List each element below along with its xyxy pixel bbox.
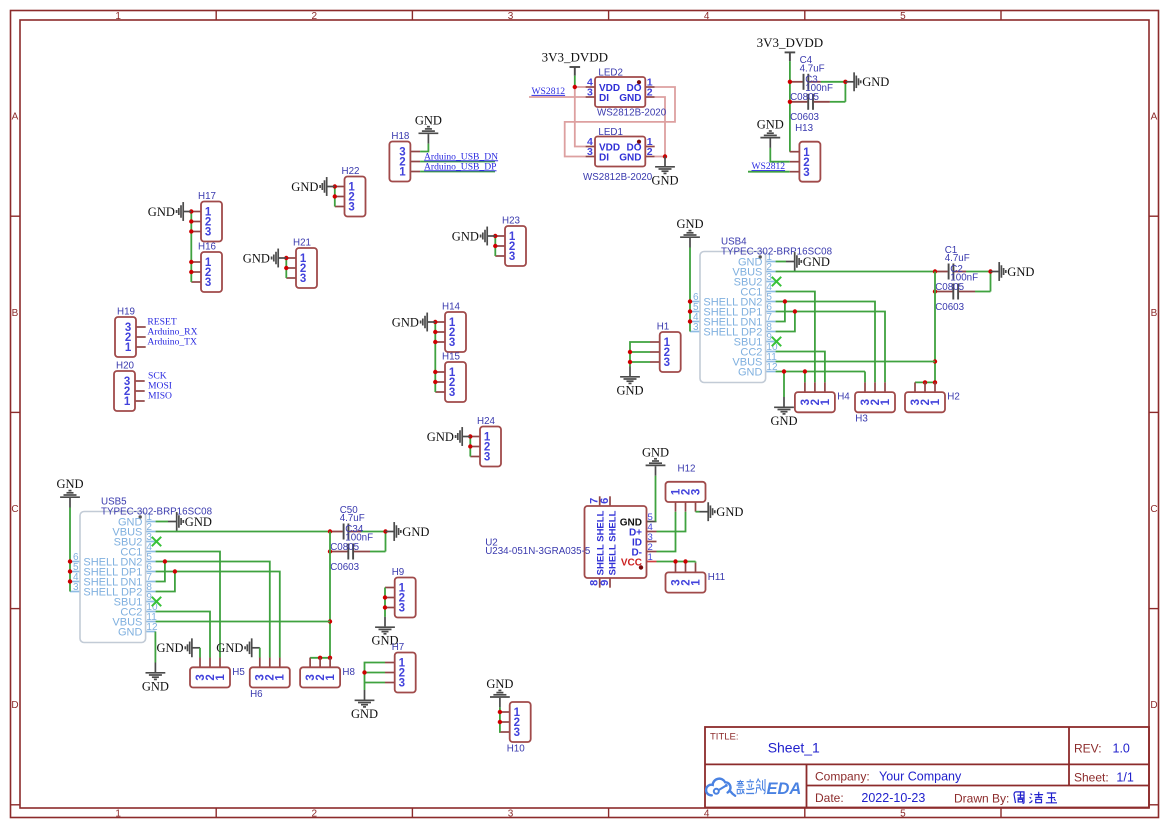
svg-text:GND: GND (148, 205, 175, 219)
svg-text:MISO: MISO (148, 390, 172, 401)
svg-text:4.7uF: 4.7uF (800, 63, 825, 74)
svg-text:2: 2 (647, 87, 653, 99)
svg-text:LED1: LED1 (598, 127, 623, 138)
svg-text:GND: GND (291, 180, 318, 194)
svg-text:GND: GND (642, 445, 669, 459)
svg-text:2: 2 (312, 11, 318, 22)
svg-text:H7: H7 (392, 642, 405, 653)
svg-text:GND: GND (651, 173, 678, 187)
svg-text:WS2812B-2020: WS2812B-2020 (583, 172, 653, 183)
svg-text:1: 1 (690, 579, 702, 586)
svg-text:3: 3 (484, 452, 490, 464)
svg-text:DI: DI (599, 152, 609, 163)
svg-text:3V3_DVDD: 3V3_DVDD (542, 49, 608, 64)
svg-text:Your Company: Your Company (879, 769, 962, 783)
svg-text:H5: H5 (232, 667, 245, 678)
svg-text:3: 3 (509, 251, 515, 263)
svg-text:3: 3 (73, 582, 79, 593)
svg-text:C: C (11, 504, 18, 515)
svg-text:3: 3 (587, 146, 593, 158)
svg-text:Date:: Date: (815, 791, 844, 805)
svg-text:D: D (1150, 700, 1157, 711)
svg-text:1.0: 1.0 (1113, 742, 1130, 756)
svg-text:GND: GND (392, 315, 419, 329)
svg-text:H18: H18 (391, 131, 410, 142)
svg-text:H17: H17 (198, 191, 216, 202)
svg-text:6: 6 (599, 498, 611, 504)
svg-text:Drawn By:: Drawn By: (954, 791, 1009, 805)
svg-text:3: 3 (205, 277, 211, 289)
svg-text:H10: H10 (507, 743, 526, 754)
svg-text:3: 3 (399, 603, 405, 615)
svg-text:1: 1 (648, 552, 653, 563)
svg-text:1: 1 (115, 809, 121, 820)
svg-text:1: 1 (325, 674, 337, 681)
svg-text:GND: GND (452, 229, 479, 243)
svg-text:H13: H13 (795, 123, 814, 134)
svg-text:H12: H12 (678, 464, 696, 475)
svg-text:C0603: C0603 (935, 302, 964, 313)
svg-text:WS2812B-2020: WS2812B-2020 (597, 107, 667, 118)
svg-text:4: 4 (704, 11, 710, 22)
svg-text:H15: H15 (442, 351, 461, 362)
svg-text:GND: GND (427, 430, 454, 444)
svg-text:Arduino_USB_DP: Arduino_USB_DP (424, 161, 497, 172)
svg-text:DI: DI (599, 93, 609, 104)
svg-text:U234-051N-3GRA035-5: U234-051N-3GRA035-5 (485, 546, 591, 557)
svg-text:B: B (1151, 308, 1158, 319)
svg-text:H6: H6 (250, 689, 263, 700)
svg-text:H11: H11 (708, 572, 725, 583)
svg-text:GND: GND (185, 515, 212, 529)
svg-text:GND: GND (1007, 265, 1034, 279)
svg-text:H22: H22 (342, 166, 360, 177)
svg-text:GND: GND (676, 217, 703, 231)
svg-text:3: 3 (587, 87, 593, 99)
svg-text:C0805: C0805 (330, 542, 359, 553)
svg-text:1: 1 (930, 398, 942, 405)
svg-text:3: 3 (508, 809, 514, 820)
svg-text:H14: H14 (442, 301, 461, 312)
svg-text:GND: GND (616, 383, 643, 397)
svg-text:5: 5 (900, 11, 906, 22)
svg-text:H9: H9 (392, 567, 405, 578)
svg-text:C0603: C0603 (330, 562, 359, 573)
svg-text:WS2812: WS2812 (752, 161, 786, 172)
svg-text:GND: GND (142, 679, 169, 693)
svg-text:GND: GND (157, 641, 184, 655)
svg-text:TITLE:: TITLE: (710, 732, 739, 743)
svg-text:3: 3 (205, 227, 211, 239)
svg-text:H4: H4 (837, 392, 850, 403)
svg-text:H8: H8 (342, 667, 355, 678)
svg-text:VCC: VCC (621, 557, 642, 568)
svg-text:REV:: REV: (1074, 742, 1102, 756)
svg-text:4.7uF: 4.7uF (945, 253, 970, 264)
svg-text:1: 1 (399, 167, 406, 179)
svg-text:GND: GND (862, 75, 889, 89)
svg-text:H23: H23 (502, 215, 521, 226)
svg-text:3: 3 (664, 357, 670, 369)
svg-text:H20: H20 (116, 360, 135, 371)
svg-text:Sheet:: Sheet: (1074, 770, 1109, 784)
svg-text:1: 1 (124, 396, 131, 408)
svg-text:Arduino_TX: Arduino_TX (147, 336, 197, 347)
svg-text:GND: GND (243, 251, 270, 265)
svg-text:5: 5 (900, 809, 906, 820)
svg-text:C0805: C0805 (790, 92, 819, 103)
svg-text:3: 3 (693, 322, 699, 333)
svg-text:B: B (12, 308, 19, 319)
svg-text:H24: H24 (477, 416, 496, 427)
svg-text:GND: GND (402, 525, 429, 539)
svg-text:A: A (1151, 112, 1158, 123)
svg-text:GND: GND (216, 641, 243, 655)
svg-text:3: 3 (514, 727, 520, 739)
svg-text:SHELL: SHELL (83, 586, 118, 598)
svg-text:WS2812: WS2812 (532, 86, 566, 97)
svg-text:2: 2 (312, 809, 318, 820)
svg-text:GND: GND (486, 677, 513, 691)
svg-text:1: 1 (820, 398, 832, 405)
svg-text:GND: GND (351, 707, 378, 721)
svg-text:H21: H21 (293, 237, 311, 248)
svg-text:3: 3 (803, 167, 809, 179)
svg-text:GND: GND (757, 118, 784, 132)
svg-text:Company:: Company: (815, 769, 870, 783)
svg-text:3: 3 (690, 489, 702, 495)
svg-text:1/1: 1/1 (1116, 770, 1133, 784)
svg-text:GND: GND (716, 505, 743, 519)
svg-text:LED2: LED2 (598, 67, 623, 78)
svg-text:GND: GND (619, 93, 641, 104)
svg-text:4: 4 (704, 809, 710, 820)
svg-text:3: 3 (300, 273, 306, 285)
svg-text:GND: GND (770, 414, 797, 428)
svg-text:H2: H2 (947, 392, 960, 403)
svg-text:2022-10-23: 2022-10-23 (861, 791, 925, 805)
svg-text:3: 3 (508, 11, 514, 22)
svg-text:C0603: C0603 (790, 112, 819, 123)
svg-text:GND: GND (738, 366, 763, 378)
svg-text:SHELL SHELL: SHELL SHELL (608, 510, 619, 575)
svg-text:GND: GND (619, 152, 641, 163)
svg-text:1: 1 (275, 674, 287, 681)
svg-text:3: 3 (399, 678, 405, 690)
svg-text:3V3_DVDD: 3V3_DVDD (757, 35, 823, 50)
svg-text:H1: H1 (657, 321, 670, 332)
svg-text:1: 1 (880, 398, 892, 405)
svg-text:D: D (11, 700, 18, 711)
svg-text:2: 2 (647, 146, 653, 158)
svg-text:H19: H19 (117, 306, 135, 317)
svg-text:9: 9 (599, 580, 611, 586)
svg-text:GND: GND (56, 477, 83, 491)
svg-text:H3: H3 (855, 414, 868, 425)
svg-text:3: 3 (449, 387, 455, 399)
svg-text:A: A (12, 112, 19, 123)
svg-text:1: 1 (115, 11, 121, 22)
svg-text:3: 3 (449, 337, 455, 349)
svg-text:Sheet_1: Sheet_1 (768, 740, 820, 756)
svg-text:H16: H16 (198, 241, 217, 252)
svg-text:GND: GND (803, 255, 830, 269)
svg-text:3: 3 (348, 202, 354, 214)
svg-text:SHELL SHELL: SHELL SHELL (596, 510, 607, 575)
svg-text:EDA: EDA (767, 780, 802, 798)
svg-text:GND: GND (118, 626, 143, 638)
svg-text:GND: GND (415, 113, 442, 127)
svg-text:SHELL: SHELL (703, 326, 738, 338)
svg-text:C: C (1150, 504, 1157, 515)
svg-text:1: 1 (125, 342, 132, 354)
svg-text:C0805: C0805 (935, 282, 964, 293)
svg-text:4.7uF: 4.7uF (340, 513, 365, 524)
svg-text:1: 1 (215, 674, 227, 681)
